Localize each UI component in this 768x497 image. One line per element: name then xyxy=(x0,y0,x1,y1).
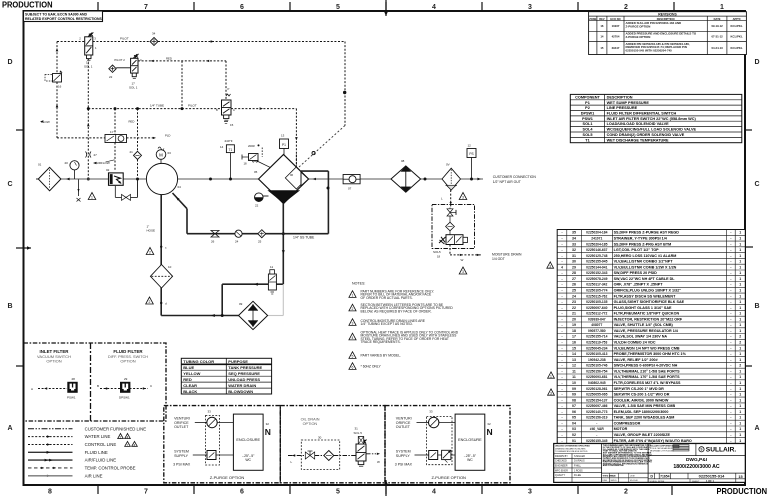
svg-text:1: 1 xyxy=(739,375,741,379)
svg-text:31: 31 xyxy=(572,254,576,258)
svg-text:APP'D: APP'D xyxy=(733,17,741,21)
svg-text:02250105-135: 02250105-135 xyxy=(586,300,607,304)
svg-text:SOL1: SOL1 xyxy=(583,122,593,126)
wire: control line L2 y=60.9 xyxy=(138,60,226,62)
bill of materials table xyxy=(557,230,745,444)
svg-text:TUBING COLOR: TUBING COLOR xyxy=(183,359,214,364)
svg-text:1/4" TUBING EXCEPT AS NOTED.: 1/4" TUBING EXCEPT AS NOTED. xyxy=(361,322,413,326)
svg-text:P1: P1 xyxy=(585,101,590,105)
svg-text:-: - xyxy=(730,369,731,373)
svg-text:1: 1 xyxy=(739,265,741,269)
svg-text:02: 02 xyxy=(106,168,110,172)
svg-text:02250155-545 WITH 02250204-745: 02250155-545 WITH 02250204-745 xyxy=(626,49,673,53)
svg-text:-: - xyxy=(561,277,562,281)
svg-text:SULLAIR.: SULLAIR. xyxy=(706,447,737,454)
svg-text:DESCRIPTION: DESCRIPTION xyxy=(607,95,633,99)
svg-text:-: - xyxy=(730,312,731,316)
svg-text:KCL/PKL: KCL/PKL xyxy=(731,46,743,50)
legend row FLUID LINE xyxy=(28,451,73,453)
svg-text:2: 2 xyxy=(739,335,741,339)
svg-text:-: - xyxy=(561,300,562,304)
svg-text:1: 1 xyxy=(739,323,741,327)
svg-text:VLV,DH COMBO 24 VDC: VLV,DH COMBO 24 VDC xyxy=(614,341,656,345)
aftercooler filter 08 xyxy=(391,166,421,192)
svg-text:29: 29 xyxy=(124,377,128,381)
svg-text:D: D xyxy=(7,59,12,66)
svg-text:-: - xyxy=(730,416,731,420)
svg-text:QUALITY: QUALITY xyxy=(555,474,566,477)
sight glass 26 xyxy=(211,231,219,234)
svg-text:26: 26 xyxy=(572,283,576,287)
svg-text:1: 1 xyxy=(739,312,741,316)
svg-text:33: 33 xyxy=(572,242,576,246)
svg-text:039939-647: 039939-647 xyxy=(588,317,606,321)
svg-text:FLUID FILTER: FLUID FILTER xyxy=(113,349,143,354)
svg-text:11: 11 xyxy=(572,369,576,373)
svg-text:PSW1: PSW1 xyxy=(582,117,593,121)
flow arrow at compressor outlet xyxy=(174,178,178,181)
svg-text:PURPOSE: PURPOSE xyxy=(228,359,248,364)
compressor 04 xyxy=(146,163,177,194)
svg-text:SCALE: NONE: SCALE: NONE xyxy=(650,480,665,483)
svg-text:1: 1 xyxy=(739,410,741,414)
wire: control line L3 y=108.6 xyxy=(88,108,221,110)
svg-text:-: - xyxy=(561,364,562,368)
svg-text:11: 11 xyxy=(572,375,576,379)
svg-text:-: - xyxy=(730,254,731,258)
node d xyxy=(160,302,162,304)
svg-text:-: - xyxy=(730,358,731,362)
svg-text:32: 32 xyxy=(487,422,491,426)
svg-text:4: 4 xyxy=(432,4,436,11)
svg-text:09: 09 xyxy=(572,387,576,391)
svg-text:Z-PURGE OPTION: Z-PURGE OPTION xyxy=(210,475,245,480)
svg-text:4: 4 xyxy=(134,444,136,448)
svg-text:1: 1 xyxy=(739,289,741,293)
gauge 20 xyxy=(70,161,79,170)
svg-text:OPTION: OPTION xyxy=(120,359,135,364)
svg-text:1: 1 xyxy=(739,306,741,310)
svg-text:10237: 10237 xyxy=(612,24,620,28)
svg-text:34: 34 xyxy=(572,237,576,241)
svg-text:COND DRAIN(2) ORDER SOLENOID V: COND DRAIN(2) ORDER SOLENOID VALVE xyxy=(607,133,685,137)
svg-text:C: C xyxy=(7,181,12,188)
wire: drop x=226 to valve 15 xyxy=(225,61,227,100)
svg-text:02250155-714: 02250155-714 xyxy=(586,335,607,339)
svg-text:FLTR,ASSY DISCH SS W/ELEMENT: FLTR,ASSY DISCH SS W/ELEMENT xyxy=(614,294,676,298)
svg-text:2: 2 xyxy=(624,489,628,496)
svg-text:4: 4 xyxy=(432,489,436,496)
svg-text:1: 1 xyxy=(91,196,93,200)
svg-text:-: - xyxy=(730,421,731,425)
svg-text:ORF, .078" .25NPT X .25NPT: ORF, .078" .25NPT X .25NPT xyxy=(614,283,664,287)
svg-text:12: 12 xyxy=(468,144,472,148)
svg-text:250,HERO LOSS 110VAC #1 ALARM: 250,HERO LOSS 110VAC #1 ALARM xyxy=(614,254,677,258)
svg-text:6: 6 xyxy=(352,366,354,370)
svg-text:09: 09 xyxy=(239,302,243,306)
svg-text:PRODUCTION: PRODUCTION xyxy=(717,487,768,496)
svg-text:02250154-137: 02250154-137 xyxy=(586,398,607,402)
svg-text:-: - xyxy=(561,335,562,339)
svg-text:-: - xyxy=(561,317,562,321)
svg-text:1: 1 xyxy=(739,398,741,402)
svg-text:UNLESS OTHERWISE SPECIFIED: UNLESS OTHERWISE SPECIFIED xyxy=(555,446,590,448)
svg-text:02250156-754: 02250156-754 xyxy=(586,369,607,373)
svg-text:-: - xyxy=(730,381,731,385)
svg-text:CHECKED: CHECKED xyxy=(555,460,567,463)
svg-text:B: B xyxy=(97,384,99,388)
svg-text:PSW1: PSW1 xyxy=(67,396,76,400)
svg-text:-: - xyxy=(561,341,562,345)
svg-text:-: - xyxy=(561,410,562,414)
svg-text:-: - xyxy=(730,335,731,339)
wire: control drop into element (over tank) xyxy=(295,155,297,167)
svg-text:3: 3 xyxy=(549,265,551,269)
svg-text:1: 1 xyxy=(739,317,741,321)
svg-text:14: 14 xyxy=(600,35,604,39)
tubing color table xyxy=(181,358,271,394)
svg-text:1: 1 xyxy=(739,260,741,264)
svg-text:-: - xyxy=(730,398,731,402)
svg-text:MICHIGAN CITY IN 46360: MICHIGAN CITY IN 46360 xyxy=(650,450,675,453)
svg-text:1: 1 xyxy=(739,300,741,304)
wire: oil drain line xyxy=(288,455,305,457)
wire: drop x=137.5 through item 21 xyxy=(137,109,139,152)
svg-text:PILOT: PILOT xyxy=(120,37,129,41)
svg-text:RED: RED xyxy=(129,120,135,124)
svg-text:B: B xyxy=(216,108,218,112)
svg-text:3: 3 xyxy=(528,489,532,496)
svg-text:09: 09 xyxy=(572,393,576,397)
node c xyxy=(160,246,162,248)
svg-text:INLET AIR FILTER SWITCH 22"WC: INLET AIR FILTER SWITCH 22"WC (558.8mm W… xyxy=(607,117,697,121)
svg-text:408077: 408077 xyxy=(591,323,602,327)
svg-text:1: 1 xyxy=(739,393,741,397)
svg-text:6: 6 xyxy=(240,489,244,496)
oil filter 09 xyxy=(239,301,268,329)
wire: line into 1Y valve y=137.9 xyxy=(57,137,105,139)
svg-text:-: - xyxy=(561,306,562,310)
svg-text:04: 04 xyxy=(178,185,182,189)
svg-text:SW,DIFF PRESS 20 PSID: SW,DIFF PRESS 20 PSID xyxy=(614,271,658,275)
svg-text:TANK PRESSURE: TANK PRESSURE xyxy=(228,365,262,370)
wire: L1 drop x=345 xyxy=(344,42,346,126)
svg-text:RELATED EXPORT CONTROL RESTRIC: RELATED EXPORT CONTROL RESTRICTIONS xyxy=(25,17,103,21)
wire: separator drop x=283.3 xyxy=(282,204,284,285)
svg-text:-: - xyxy=(730,393,731,397)
svg-text:-: - xyxy=(730,237,731,241)
svg-text:SOL4: SOL4 xyxy=(583,128,594,132)
thermal valve 11 xyxy=(268,274,276,290)
svg-text:-: - xyxy=(561,416,562,420)
svg-text:3: 3 xyxy=(462,270,464,274)
svg-text:35: 35 xyxy=(572,231,576,235)
svg-text:02250125-748: 02250125-748 xyxy=(586,254,607,258)
svg-text:REV: REV xyxy=(599,17,605,21)
motor M 03 xyxy=(156,150,166,160)
svg-text:02-01-08: 02-01-08 xyxy=(630,480,638,482)
svg-text:D: D xyxy=(754,59,759,66)
svg-text:SWCH,PRESS 0-600PSI 4-20VDC NH: SWCH,PRESS 0-600PSI 4-20VDC NH xyxy=(614,364,678,368)
svg-text:01: 01 xyxy=(572,439,576,443)
svg-text:10: 10 xyxy=(168,265,172,269)
svg-text:BLOWDOWN: BLOWDOWN xyxy=(228,389,253,394)
svg-text:SULLAIR CORPORATION: SULLAIR CORPORATION xyxy=(650,444,675,447)
svg-text:1: 1 xyxy=(739,231,741,235)
svg-text:1: 1 xyxy=(739,427,741,431)
svg-text:02250155-945: 02250155-945 xyxy=(586,260,607,264)
svg-text:-: - xyxy=(730,439,731,443)
svg-text:SUPPLY: SUPPLY xyxy=(396,454,411,458)
svg-text:03: 03 xyxy=(572,427,576,431)
svg-text:COMPONENT: COMPONENT xyxy=(575,95,600,99)
inlet filter / fluid filter option boxes xyxy=(24,343,167,421)
svg-text:SS,DIFF PRESS Z-PRG ASY BTM: SS,DIFF PRESS Z-PRG ASY BTM xyxy=(614,242,672,246)
svg-text:02250105-774: 02250105-774 xyxy=(586,289,607,293)
svg-text:-: - xyxy=(561,358,562,362)
svg-text:3: 3 xyxy=(462,196,464,200)
svg-text:28: 28 xyxy=(72,377,76,381)
svg-text:30: 30 xyxy=(572,260,576,264)
svg-text:6: 6 xyxy=(240,4,244,11)
wire: diagonal dash to separator xyxy=(299,126,345,168)
item 02 drain loop xyxy=(114,186,116,197)
svg-text:-: - xyxy=(730,387,731,391)
wire: 1Y exhaust right xyxy=(127,137,156,139)
svg-text:SOL5: SOL5 xyxy=(433,250,441,254)
svg-text:-: - xyxy=(561,433,562,437)
strainer xyxy=(446,222,455,231)
svg-text:OIL DRAIN: OIL DRAIN xyxy=(301,418,320,422)
svg-text:2: 2 xyxy=(120,436,122,440)
svg-text:3: 3 xyxy=(352,322,354,326)
wire: drop x=182 xyxy=(181,61,183,109)
svg-text:02250097-640: 02250097-640 xyxy=(586,306,607,310)
svg-text:1: 1 xyxy=(739,271,741,275)
orifice 27 xyxy=(86,152,92,158)
svg-text:M: M xyxy=(159,153,163,158)
svg-text:02250105-413: 02250105-413 xyxy=(586,352,607,356)
svg-text:20: 20 xyxy=(65,161,69,165)
svg-text:YELLOW: YELLOW xyxy=(183,371,200,376)
svg-text:5: 5 xyxy=(352,355,354,359)
svg-text:1: 1 xyxy=(739,387,741,391)
svg-text:VALVE, RELIEF 1/2" 200#: VALVE, RELIEF 1/2" 200# xyxy=(614,358,658,362)
svg-text:#40_VAR: #40_VAR xyxy=(590,427,605,431)
wire: drop x=296.4 to separator element xyxy=(295,109,297,167)
svg-text:WET SUMP PRESSURE: WET SUMP PRESSURE xyxy=(607,101,650,105)
svg-text:-: - xyxy=(561,248,562,252)
svg-text:02250156-319: 02250156-319 xyxy=(586,416,607,420)
svg-text:-: - xyxy=(561,346,562,350)
svg-text:TRACE REQUIREMENTS.: TRACE REQUIREMENTS. xyxy=(361,340,401,344)
svg-text:06: 06 xyxy=(572,410,576,414)
svg-text:1: 1 xyxy=(739,283,741,287)
svg-text:-: - xyxy=(596,433,597,437)
svg-text:26: 26 xyxy=(211,240,215,244)
svg-text:33: 33 xyxy=(208,410,212,414)
note triangle near 02 xyxy=(88,193,96,200)
svg-text:DPSW1: DPSW1 xyxy=(119,396,130,400)
svg-text:2: 2 xyxy=(739,341,741,345)
svg-text:040802-945: 040802-945 xyxy=(588,381,606,385)
svg-text:FLTR,CORELESS M27 4°L W/ BYPAS: FLTR,CORELESS M27 4°L W/ BYPASS xyxy=(614,381,681,385)
svg-text:2: 2 xyxy=(149,251,151,255)
svg-text:SUPPLY: SUPPLY xyxy=(174,454,189,458)
svg-text:-: - xyxy=(730,289,731,293)
svg-text:BLUE: BLUE xyxy=(183,365,194,370)
svg-text:FLTR,PNEUMATIC 1/8"NPT QUICKON: FLTR,PNEUMATIC 1/8"NPT QUICKON xyxy=(614,312,680,316)
svg-text:TANK, SEP 2200 W/SADDLES ASM: TANK, SEP 2200 W/SADDLES ASM xyxy=(614,416,675,420)
svg-text:WATER LINE: WATER LINE xyxy=(85,434,111,439)
wire: 22 to 17b xyxy=(116,67,130,69)
svg-text:AIR/FLUID LINE: AIR/FLUID LINE xyxy=(85,458,117,463)
svg-text:S.MILLER: S.MILLER xyxy=(574,455,585,458)
svg-text:4: 4 xyxy=(352,336,354,340)
blowdown valve 1Y xyxy=(105,135,127,143)
svg-text:B: B xyxy=(754,303,759,310)
svg-text:02250155-914: 02250155-914 xyxy=(699,474,726,479)
svg-text:ELEM,UDL SEP 1800/2200/3000: ELEM,UDL SEP 1800/2200/3000 xyxy=(614,410,669,414)
svg-text:-: - xyxy=(730,283,731,287)
svg-text:3: 3 xyxy=(550,392,552,396)
svg-text:17: 17 xyxy=(572,335,576,339)
svg-text:3 PSI MAX: 3 PSI MAX xyxy=(173,462,191,466)
svg-text:P1: P1 xyxy=(282,143,286,147)
svg-text:R.LEE: R.LEE xyxy=(574,474,581,477)
wire: main air line inlet xyxy=(61,178,147,180)
svg-text:1: 1 xyxy=(739,242,741,246)
svg-text:1/4 ODT: 1/4 ODT xyxy=(492,257,505,261)
thermistor T1 14 xyxy=(230,153,232,180)
svg-text:02250152-343: 02250152-343 xyxy=(586,271,607,275)
svg-text:7: 7 xyxy=(144,4,148,11)
svg-text:240°F: 240°F xyxy=(225,139,233,143)
svg-text:PLUG,SIGHT GLASS 1 3/16" SAE: PLUG,SIGHT GLASS 1 3/16" SAE xyxy=(614,306,672,310)
svg-text:27: 27 xyxy=(94,153,98,157)
svg-text:AIR LINE: AIR LINE xyxy=(85,473,103,478)
svg-text:SEP,WTR CS-200 1-1/2" W/O DR: SEP,WTR CS-200 1-1/2" W/O DR xyxy=(614,393,670,397)
svg-text:71654: 71654 xyxy=(660,474,670,478)
svg-text:PROBE,THERMISTOR 3000 OHM HTC: PROBE,THERMISTOR 3000 OHM HTC 1% xyxy=(614,352,687,356)
svg-text:SHEET: SHEET xyxy=(692,481,700,483)
node junction circle xyxy=(343,91,346,94)
svg-text:04-24-13: 04-24-13 xyxy=(711,46,723,50)
svg-text:22: 22 xyxy=(572,306,576,310)
svg-text:DIMENSIONS ARE IN INCHES: DIMENSIONS ARE IN INCHES xyxy=(555,447,586,450)
needle valve xyxy=(447,209,453,213)
pressure transducer P1 13 xyxy=(283,148,285,156)
svg-text:8: 8 xyxy=(48,489,52,496)
svg-text:32: 32 xyxy=(266,422,270,426)
svg-text:-: - xyxy=(561,283,562,287)
svg-text:16: 16 xyxy=(572,341,576,345)
svg-text:02250093-681: 02250093-681 xyxy=(586,375,607,379)
moisture drain option box SOL5 xyxy=(432,205,475,249)
svg-text:D: D xyxy=(650,475,653,479)
svg-text:VALVE, PRESSURE REGULATOR 1/4: VALVE, PRESSURE REGULATOR 1/4 xyxy=(614,329,679,333)
wire: control line L1 y=41.5 xyxy=(57,41,85,43)
svg-text:08: 08 xyxy=(401,159,405,163)
svg-text:A: A xyxy=(754,425,759,432)
extra purge regulator xyxy=(442,450,451,459)
outlet nozzle xyxy=(301,172,309,186)
svg-text:-: - xyxy=(730,375,731,379)
svg-text:ENGINEER: ENGINEER xyxy=(555,465,568,468)
svg-text:-: - xyxy=(730,352,731,356)
sump drain funnel xyxy=(269,191,300,203)
blowdown valve 15 xyxy=(222,100,232,115)
svg-text:1: 1 xyxy=(720,4,724,11)
svg-text:Z-PURGE OPTION: Z-PURGE OPTION xyxy=(432,475,467,480)
svg-text:05: 05 xyxy=(572,416,576,420)
svg-text:PROJ: PROJ xyxy=(611,475,616,477)
svg-text:TEMP. CONTROL PROBE: TEMP. CONTROL PROBE xyxy=(85,465,136,470)
oil drain option box xyxy=(280,406,385,483)
svg-text:DRAWN BY: DRAWN BY xyxy=(555,455,568,458)
svg-text:ZONE: ZONE xyxy=(589,17,596,21)
svg-text:SOL 1: SOL 1 xyxy=(84,64,93,68)
svg-text:02250115-762: 02250115-762 xyxy=(586,294,607,298)
wire: faint bypass xyxy=(282,284,284,315)
svg-text:SEQ PRESSURE: SEQ PRESSURE xyxy=(228,371,260,376)
gauge drain vent xyxy=(78,180,80,197)
svg-text:SS,DIFF PRESS Z-PURGE ASY REGD: SS,DIFF PRESS Z-PURGE ASY REGD xyxy=(614,231,680,235)
svg-text:SW,VAC 22"WC NH 4FT CABLE DL: SW,VAC 22"WC NH 4FT CABLE DL xyxy=(614,277,676,281)
svg-text:1800/2200/3000 AC: 1800/2200/3000 AC xyxy=(673,464,719,470)
svg-text:DWG: DWG xyxy=(603,480,608,482)
svg-text:S: S xyxy=(700,448,702,452)
svg-text:VLV,THERMAL 170° 1-5/8 SAE POR: VLV,THERMAL 170° 1-5/8 SAE PORTS xyxy=(614,375,680,379)
valve SOL1 17a xyxy=(85,37,93,55)
svg-text:18: 18 xyxy=(572,329,576,333)
svg-text:-: - xyxy=(561,393,562,397)
svg-text:14: 14 xyxy=(220,145,224,149)
svg-text:A: A xyxy=(7,425,12,432)
wire: left control riser x=57 xyxy=(56,42,58,74)
svg-text:INJECTOR, RESTRICTION 20"M22 O: INJECTOR, RESTRICTION 20"M22 ORF xyxy=(614,317,683,321)
svg-text:11: 11 xyxy=(270,265,273,269)
svg-text:22: 22 xyxy=(255,204,259,208)
svg-text:ENCLOSURE: ENCLOSURE xyxy=(458,438,482,442)
svg-text:-: - xyxy=(730,306,731,310)
svg-text:5: 5 xyxy=(336,489,340,496)
svg-text:-: - xyxy=(561,381,562,385)
svg-text:21: 21 xyxy=(130,150,134,154)
svg-text:2: 2 xyxy=(149,300,151,304)
svg-text:-: - xyxy=(730,271,731,275)
strainer diamond 22 xyxy=(109,65,116,72)
svg-text:2: 2 xyxy=(624,4,628,11)
svg-text:-: - xyxy=(561,323,562,327)
svg-text:WATER DRAIN: WATER DRAIN xyxy=(228,383,256,388)
wire: 1Y to item 02 xyxy=(114,143,116,171)
wire: riser x=88.3 valve 17a to main line xyxy=(87,59,89,179)
svg-text:CONTROL LINE: CONTROL LINE xyxy=(85,442,117,447)
svg-text:WET DISCHARGE TEMPERATURE: WET DISCHARGE TEMPERATURE xyxy=(607,138,669,142)
svg-text:02250144-941: 02250144-941 xyxy=(586,265,607,269)
svg-text:WC/SEQUENCING/FULL LOAD SOLENO: WC/SEQUENCING/FULL LOAD SOLENOID VALVE xyxy=(607,128,697,132)
svg-text:REVISIONS: REVISIONS xyxy=(658,12,677,16)
svg-text:04: 04 xyxy=(572,421,576,425)
svg-text:VLV,THERMAL 210° 1-5/8 SAE POR: VLV,THERMAL 210° 1-5/8 SAE PORTS xyxy=(614,369,680,373)
svg-text:-: - xyxy=(730,260,731,264)
svg-text:VALVE, 1-5/8 SAE MIN PRESS CMB: VALVE, 1-5/8 SAE MIN PRESS CMB xyxy=(614,404,676,408)
svg-text:07: 07 xyxy=(348,187,352,191)
wire: thermal valve branch y=284.2 xyxy=(268,283,276,285)
pressure switch PS 12 xyxy=(471,158,473,180)
svg-text:J.ROSS: J.ROSS xyxy=(574,469,583,472)
